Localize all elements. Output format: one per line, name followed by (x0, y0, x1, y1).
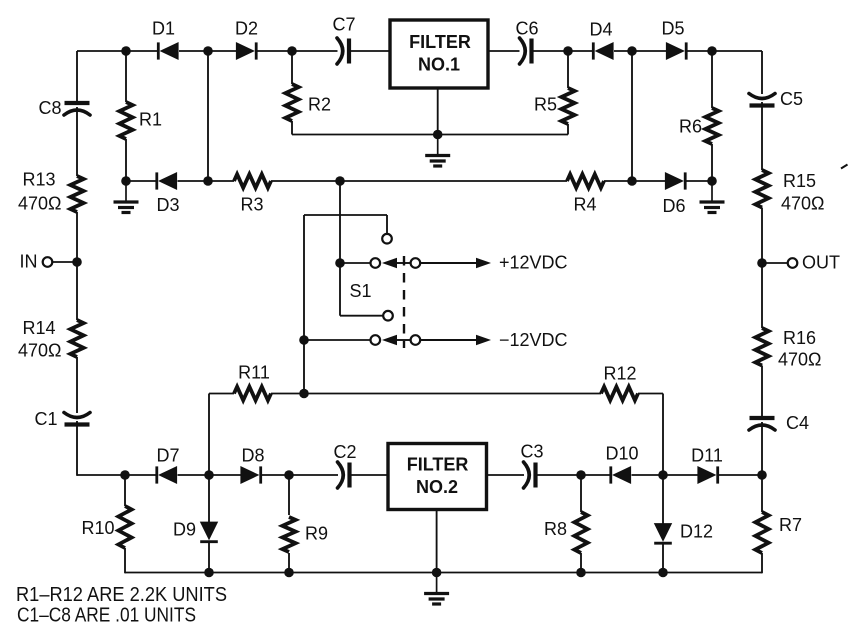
node junction R6 bottom / ground (707, 176, 717, 186)
wire bottom ground bus (125, 572, 762, 574)
svg-text:C8: C8 (38, 98, 61, 118)
wire R6 top lead (711, 51, 713, 108)
diode D9 (200, 522, 218, 542)
switch S1 lower wiper contact (411, 335, 421, 345)
wire R8 top lead (580, 475, 582, 512)
diode D10 (611, 466, 631, 483)
node OUT junction (757, 258, 767, 268)
svg-text:R5: R5 (534, 95, 557, 115)
wire R8 bottom lead (580, 553, 582, 573)
ground below FILTER NO.1 (425, 135, 450, 167)
wire D12 top lead (662, 475, 664, 525)
node junction D4-D5 (627, 46, 637, 56)
node junction right rail / R7 (757, 470, 767, 480)
svg-text:IN: IN (20, 252, 38, 272)
wire R3 to R4 (271, 180, 567, 182)
resistor R15 (755, 170, 768, 208)
wire top rail from C8 corner to D1 (77, 50, 157, 52)
wire R11 left lead and drop to D7-D8 (209, 393, 234, 395)
svg-text:C3: C3 (520, 442, 543, 462)
wire filter1 to C6 (488, 50, 520, 52)
svg-text:C5: C5 (780, 89, 803, 109)
wire D9 top lead (208, 475, 210, 523)
wire filter1 ground lead (437, 88, 439, 135)
svg-text:R8: R8 (544, 519, 567, 539)
resistor R13 (70, 176, 83, 212)
node junction D3-R3 column (203, 176, 213, 186)
resistor R8 (574, 512, 587, 553)
wire D7 to D8 (178, 474, 242, 476)
node junction top of R2 (287, 46, 297, 56)
wire D1-D2 junction down to D3 row (207, 51, 209, 181)
wire R1 bottom lead (125, 139, 127, 181)
node bus junction D12 (658, 568, 668, 578)
resistor R10 (118, 506, 131, 548)
svg-text:D12: D12 (680, 522, 713, 542)
wire D11 to right rail (718, 474, 762, 476)
wire R12 right lead and drop to D10-D11 (638, 393, 663, 395)
diode D6 (665, 172, 685, 189)
svg-text:R15: R15 (783, 171, 816, 191)
diode D5 (666, 42, 686, 59)
wire right rail C4 to bottom corner (761, 422, 763, 476)
svg-text:D5: D5 (661, 19, 684, 39)
wire R9 top lead (288, 475, 290, 515)
capacitor C7 (337, 38, 349, 64)
capacitor C6 (520, 38, 532, 64)
svg-text:R3: R3 (240, 195, 263, 215)
wire D9 bottom lead (208, 542, 210, 573)
wire left rail R13 to R14 (76, 212, 78, 320)
node junction D7-D8 / D9 (204, 470, 214, 480)
svg-text:R6: R6 (679, 117, 702, 137)
svg-text:D4: D4 (589, 20, 612, 40)
svg-text:C7: C7 (332, 15, 355, 35)
node filter1 ground junction (433, 130, 443, 140)
resistor R9 (282, 517, 295, 552)
capacitor C8 (64, 103, 90, 115)
wire R2 bottom lead (291, 121, 293, 135)
resistor R5 (561, 88, 574, 124)
node bus junction R8 (576, 568, 586, 578)
svg-text:D10: D10 (605, 444, 638, 464)
svg-text:R12: R12 (603, 364, 636, 384)
capacitor C4 (749, 418, 775, 430)
svg-text:C1–C8 ARE .01 UNITS: C1–C8 ARE .01 UNITS (17, 605, 196, 627)
svg-text:FILTER: FILTER (407, 455, 469, 475)
wire D3 to R3 (178, 180, 235, 182)
wire C2 to filter2 (351, 474, 389, 476)
terminal OUT (762, 262, 787, 264)
wire left rail C8 to R13 (76, 107, 78, 176)
svg-text:D11: D11 (691, 446, 723, 466)
svg-text:D7: D7 (156, 446, 179, 466)
wire R7 bottom lead (761, 553, 763, 573)
svg-text:R7: R7 (779, 515, 802, 535)
wire filter2 to C3 (487, 474, 525, 476)
svg-text:R14: R14 (23, 318, 56, 338)
wire D10 to D11 (632, 474, 699, 476)
wire R10 top lead (124, 475, 126, 506)
capacitor C3 (524, 462, 536, 488)
switch S1 lower throw contact (383, 311, 393, 321)
resistor R14 (70, 320, 83, 357)
svg-text:FILTER: FILTER (409, 32, 471, 52)
resistor R4 (567, 174, 604, 188)
diode D3 (157, 172, 177, 189)
node junction D10-D11 / D12 (658, 470, 668, 480)
switch S1 lower left contact (371, 335, 381, 345)
switch S1 upper wiper contact (411, 258, 421, 268)
ground below FILTER NO.2 (424, 573, 449, 605)
resistor R3 (234, 174, 271, 188)
svg-text:R13: R13 (23, 170, 56, 190)
arrow -12VDC (477, 335, 490, 344)
svg-text:R9: R9 (305, 524, 328, 544)
svg-text:R10: R10 (81, 518, 114, 538)
wire right rail C5 to R15 (761, 102, 763, 170)
diode D8 (241, 466, 261, 483)
switch S1 lower wiper arrow (396, 339, 411, 341)
wire D4-D5 junction down to R4 row (631, 51, 633, 181)
svg-text:470Ω: 470Ω (18, 341, 62, 361)
node junction top of R10 (120, 470, 130, 480)
diode D4 (593, 42, 613, 59)
diode D12 (654, 524, 672, 544)
wire R1 top lead (125, 51, 127, 102)
wire D6 to R6 bottom (686, 180, 712, 182)
wire left rail top segment (76, 51, 78, 101)
node IN junction (72, 257, 82, 267)
switch S1 upper left contact (371, 258, 381, 268)
svg-text:+12VDC: +12VDC (499, 253, 568, 273)
wire R6 bottom lead (711, 144, 713, 181)
node S1 upper pole junction (335, 258, 345, 268)
arrow +12VDC (477, 258, 490, 267)
node S1 lower pole junction (299, 335, 309, 345)
node junction top of R5 (563, 46, 573, 56)
capacitor C5 (749, 94, 775, 106)
switch S1 gang dashed link (403, 256, 405, 348)
svg-text:R1–R12 ARE 2.2K UNITS: R1–R12 ARE 2.2K UNITS (16, 584, 227, 606)
wire R5 top lead (567, 51, 569, 88)
wire R11 to R12 bus (271, 393, 601, 395)
svg-text:R1: R1 (139, 110, 162, 130)
filter block U1 FILTER NO.1 (390, 20, 488, 88)
wire to -12VDC (421, 339, 478, 341)
svg-text:R11: R11 (238, 363, 270, 383)
svg-text:R4: R4 (573, 195, 596, 215)
wire S1 lower pole to contact (304, 339, 370, 341)
resistor R1 (119, 102, 132, 139)
wire R5 bottom lead (567, 124, 569, 135)
node junction S1 feed (335, 176, 345, 186)
svg-text:D2: D2 (235, 19, 258, 39)
resistor R7 (755, 512, 768, 553)
svg-text:D8: D8 (241, 446, 264, 466)
switch S1 upper throw contact (382, 234, 392, 244)
wire ground node to D3 (126, 180, 157, 182)
svg-text:D9: D9 (173, 520, 196, 540)
svg-text:S1: S1 (349, 281, 371, 301)
svg-text:470Ω: 470Ω (18, 194, 62, 214)
wire D5 to right rail corner (687, 50, 762, 52)
wire R4 to D6 (604, 180, 666, 182)
wire S1 feed down from R3-R4 bus (339, 181, 341, 263)
diode D2 (236, 42, 256, 59)
wire S1 lower throw link (340, 315, 383, 317)
ground below D6 (700, 181, 725, 213)
wire filter2 ground lead (436, 510, 438, 573)
resistor R16 (755, 328, 768, 366)
diode D7 (157, 466, 177, 483)
node bus junction R9 (284, 568, 294, 578)
svg-text:D1: D1 (152, 19, 175, 39)
wire D8 to C2 (261, 474, 338, 476)
resistor R12 (601, 387, 638, 401)
wire R10 bottom lead (124, 548, 126, 573)
svg-text:D6: D6 (662, 196, 685, 216)
svg-text:NO.1: NO.1 (418, 55, 460, 75)
capacitor C1 (64, 413, 90, 425)
svg-text:R16: R16 (783, 328, 816, 348)
ground below R1 (114, 181, 139, 213)
wire D4 to D5 (614, 50, 667, 52)
svg-text:C6: C6 (515, 19, 538, 39)
svg-text:−12VDC: −12VDC (499, 330, 568, 350)
switch S1 upper wiper arrow (396, 262, 411, 264)
capacitor C2 (338, 462, 350, 488)
wire D12 bottom lead (662, 544, 664, 573)
wire D1 to D2 (179, 50, 238, 52)
node junction D1-D2 (203, 46, 213, 56)
wire C7 to filter1 (350, 50, 390, 52)
wire R7 top lead (761, 475, 763, 512)
filter block U2 FILTER NO.2 (388, 444, 487, 510)
resistor R2 (285, 84, 298, 121)
node junction D4-D5 column bottom (627, 176, 637, 186)
wire R2 top lead (291, 51, 293, 84)
svg-text:470Ω: 470Ω (778, 350, 822, 370)
node junction top of R8 (576, 470, 586, 480)
node junction top of R1 (121, 46, 131, 56)
svg-text:D3: D3 (156, 195, 179, 215)
svg-text:OUT: OUT (802, 253, 840, 273)
wire left rail C1 to bottom corner (76, 421, 78, 476)
svg-text:470Ω: 470Ω (781, 194, 825, 214)
wire to +12VDC (421, 262, 478, 264)
resistor R11 (234, 387, 271, 401)
svg-text:C1: C1 (34, 409, 57, 429)
wire S1 pole to upper contact (340, 262, 370, 264)
svg-text:C2: C2 (333, 442, 356, 462)
node junction S1 rail to bus (299, 389, 309, 399)
wire D2 to C7 (257, 50, 338, 52)
svg-text:C4: C4 (786, 413, 809, 433)
scan artifact tick right margin (841, 165, 848, 169)
wire S1 upper throw to left rail (386, 215, 388, 234)
svg-text:R2: R2 (308, 95, 331, 115)
wire bottom row left corner to D7 (77, 474, 157, 476)
node junction top of R6 (707, 46, 717, 56)
wire left rail R14 to C1 (76, 357, 78, 413)
resistor R6 (705, 108, 718, 144)
node bus junction D9 (204, 568, 214, 578)
wire C3 to D10 (537, 474, 611, 476)
svg-text:NO.2: NO.2 (416, 477, 458, 497)
node junction R1 bottom / ground (121, 176, 131, 186)
diode D11 (698, 466, 718, 483)
wire C6 to D4 (533, 50, 594, 52)
diode D1 (158, 42, 178, 59)
node filter2 ground junction (432, 568, 442, 578)
wire R9 bottom lead (288, 553, 290, 573)
node junction top of R9 (284, 470, 294, 480)
wire right rail top segment (761, 51, 763, 94)
wire right rail R15 to R16 (761, 208, 763, 329)
terminal IN (43, 257, 53, 267)
wire R2-R5 bottom bus (292, 134, 568, 136)
wire right rail R16 to C4 (761, 366, 763, 418)
